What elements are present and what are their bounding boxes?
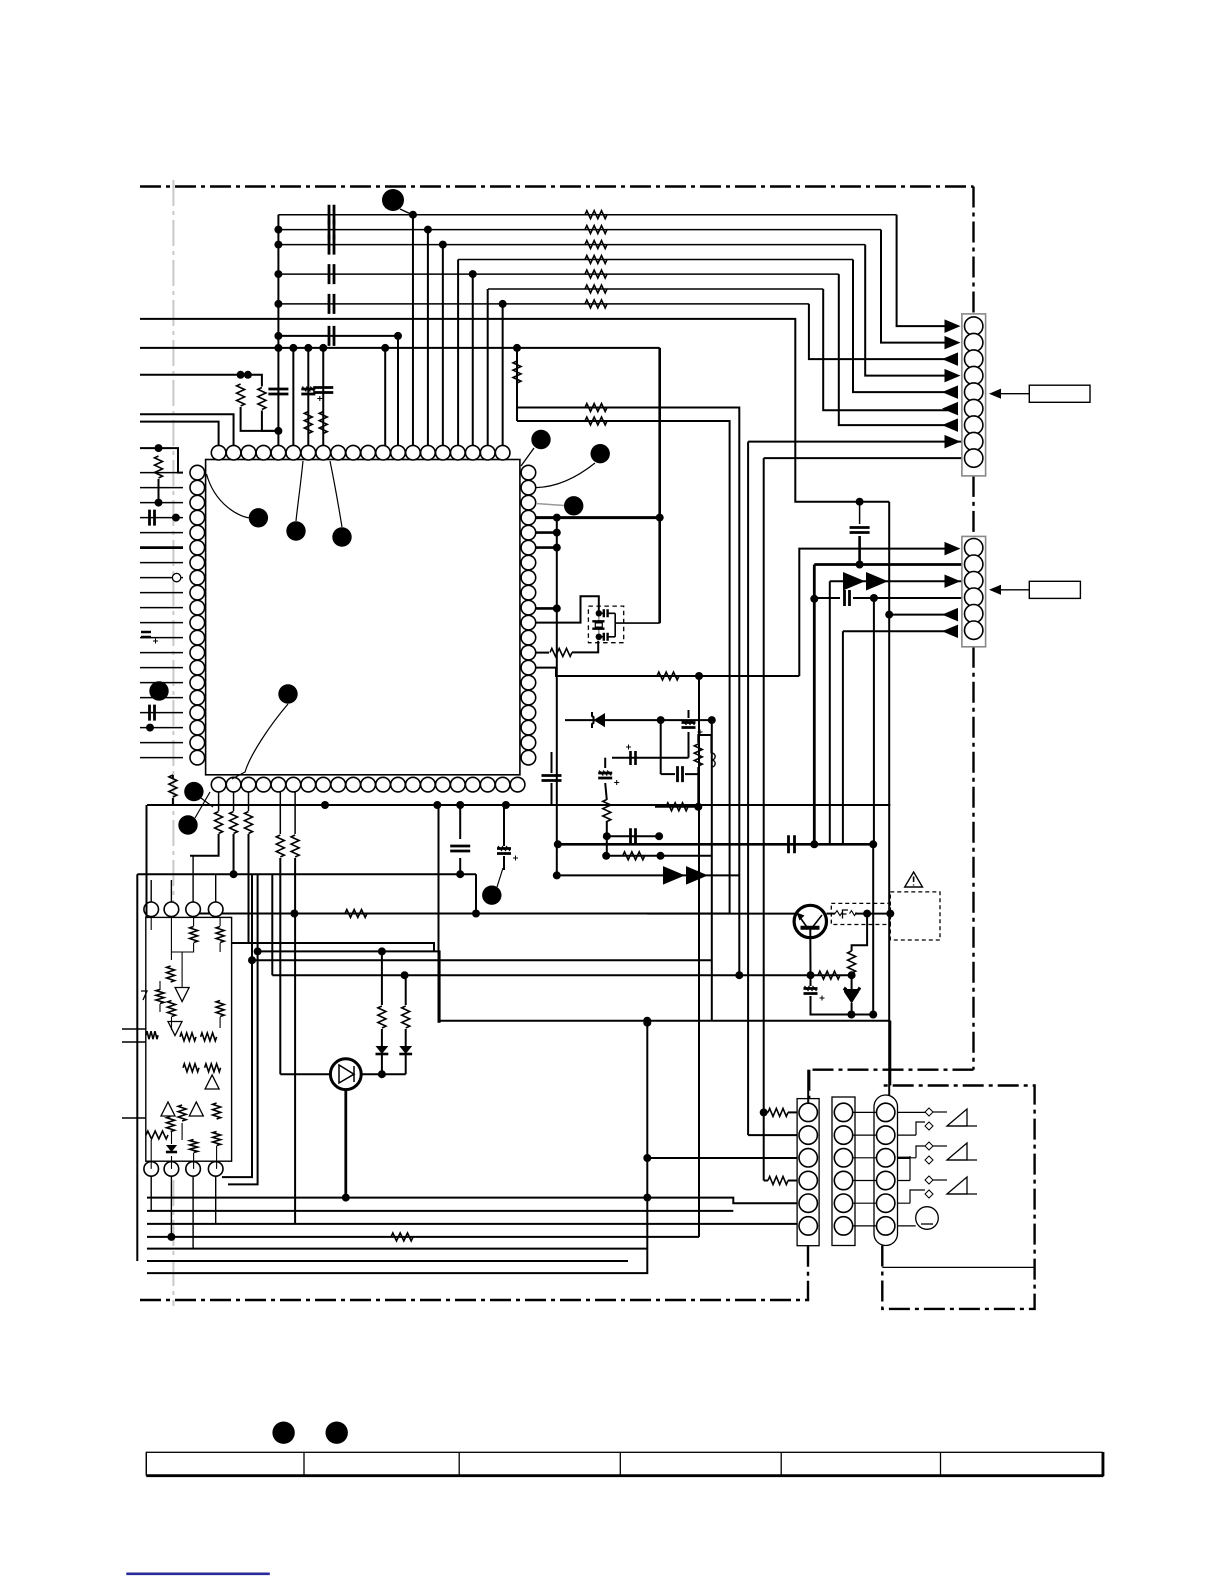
junction — [439, 241, 447, 249]
wire U2 pin feeds — [151, 856, 216, 902]
wire rail y1210 — [147, 1210, 733, 1212]
resistor R below C3 — [319, 412, 327, 434]
junction — [304, 344, 312, 352]
callout dot pin name — [249, 508, 268, 527]
U2 internal wires — [151, 917, 220, 1169]
wire riser x890 low — [889, 1021, 891, 1086]
resistor R32 — [180, 1033, 196, 1041]
arrowhead at CN2 pin6 — [942, 625, 958, 638]
wire left net y375 — [140, 374, 248, 376]
wire drop x699 — [698, 676, 700, 1237]
resistor R18 — [169, 775, 177, 797]
wire left net to top pin2 — [140, 414, 234, 445]
capacitor C3 — [313, 388, 333, 393]
junction — [695, 672, 703, 680]
junction — [274, 344, 282, 352]
wire — [503, 805, 505, 846]
wire jog riser 2 — [228, 874, 258, 1184]
wire — [605, 783, 607, 800]
wire — [698, 735, 711, 753]
capacitor C18 electrolytic — [804, 989, 818, 994]
callout dot — [286, 521, 305, 540]
junction — [596, 610, 602, 616]
wire CN2 pin2 thick — [814, 563, 962, 566]
wire riser to CN2 pin1 — [799, 549, 948, 676]
junction — [502, 801, 510, 809]
wire net y875 — [557, 874, 740, 876]
wire — [810, 996, 812, 1015]
callout leader — [296, 461, 303, 521]
no-connect circle — [172, 573, 180, 581]
footer blue rule — [126, 1573, 269, 1576]
junction — [810, 840, 818, 848]
wire CN2 pin6 net — [843, 630, 948, 632]
junction — [596, 634, 602, 640]
callout dot — [564, 496, 583, 515]
wire cap bank bus — [277, 215, 279, 446]
buffer A5 — [189, 1102, 203, 1116]
callout leader — [207, 474, 250, 518]
callout dot — [184, 782, 203, 801]
resistor R9 — [694, 744, 702, 766]
callout leader — [330, 461, 342, 527]
resistor R31 — [168, 1001, 176, 1017]
label box CN1 — [1029, 385, 1090, 402]
wire bus drop to IC pin — [412, 215, 414, 446]
wire net y407 to riser — [517, 408, 739, 976]
arrowhead at CN2 pin5 — [942, 608, 958, 621]
wire bus drop to IC pin — [427, 230, 429, 446]
wire bus drop to IC pin — [457, 260, 459, 446]
resistor R16 — [848, 951, 856, 973]
junction — [810, 595, 818, 603]
junction — [694, 803, 702, 811]
wire pin10 thick stub — [536, 607, 557, 610]
callout leader — [497, 868, 503, 887]
junction — [553, 604, 561, 612]
resistor R41 — [146, 1131, 168, 1139]
wire — [459, 805, 461, 839]
capacitor on bus line 3 — [329, 235, 334, 255]
capacitor C top — [329, 326, 334, 346]
inductor L1 — [711, 753, 715, 767]
junction — [230, 870, 238, 878]
wire CN3 top entry — [807, 1070, 809, 1104]
callout leader — [400, 209, 414, 216]
wire — [503, 856, 505, 870]
capacitor C2 electrolytic — [301, 389, 315, 394]
arrowhead into CN2 pin1 — [945, 542, 961, 555]
wire rail y1237 — [147, 1236, 699, 1238]
wire — [551, 783, 553, 805]
wire — [280, 792, 295, 834]
footer dot 2 — [326, 1422, 348, 1444]
crystal X1 — [598, 613, 600, 637]
crystal box — [588, 606, 623, 643]
wire — [405, 1054, 407, 1074]
wire bus line 5 — [278, 273, 838, 275]
IC U1 right pins — [521, 465, 536, 480]
wire thick jack — [898, 1157, 911, 1159]
jack J3 — [925, 1176, 933, 1184]
schematic boundary top — [140, 185, 974, 187]
resistor R19 — [215, 812, 223, 834]
callout dot — [591, 444, 610, 463]
wire corner to connector CN1 — [839, 274, 948, 425]
diode D5 — [166, 1145, 177, 1152]
resistor R15 — [513, 361, 521, 383]
buffer A4 — [161, 1102, 175, 1116]
junction — [735, 971, 743, 979]
wire pin drops — [219, 792, 249, 811]
wire — [788, 1111, 797, 1113]
wire R6 bottom — [158, 479, 160, 503]
resistor R14 — [585, 417, 607, 425]
wire — [381, 951, 383, 1005]
junction — [378, 947, 386, 955]
junction — [244, 371, 252, 379]
wire bus line 4 — [458, 259, 853, 261]
wire CN1 pin8 line — [748, 441, 962, 443]
capacitor C10 electrolytic — [682, 723, 696, 728]
arrowhead into CN1 — [945, 369, 961, 382]
wire crystal out — [615, 622, 660, 624]
callout dot — [278, 684, 297, 703]
callout dot — [482, 886, 501, 905]
resistor R46 — [768, 1177, 788, 1185]
wire zener net — [565, 719, 712, 721]
buffer A1 — [175, 988, 189, 1002]
capacitor C13 — [678, 766, 683, 782]
wire jack feeds — [898, 1112, 926, 1226]
junction — [760, 1108, 768, 1116]
wire riser x438 — [438, 805, 440, 1023]
connector CN4 body — [832, 1097, 855, 1246]
resistor R8 — [657, 672, 679, 680]
IC U1 left pins — [190, 465, 205, 480]
IC U2 top pins — [144, 902, 159, 917]
junction — [381, 344, 389, 352]
wire column pin6 — [307, 348, 309, 446]
resistor on bus line 2 — [585, 226, 607, 234]
junction — [553, 514, 561, 522]
wire left net to top pin1 — [140, 422, 219, 446]
resistor R38 — [178, 1105, 186, 1121]
junction — [172, 514, 180, 522]
wire net y421 to riser — [517, 421, 730, 914]
junction — [155, 444, 163, 452]
resistor R24 — [345, 910, 367, 918]
connector CN1 body — [962, 314, 986, 476]
fuse box dashed — [831, 903, 890, 924]
wire cap to pin2 line — [859, 502, 861, 524]
resistor R29 — [167, 966, 175, 982]
junction — [424, 226, 432, 234]
callout leader — [195, 792, 210, 818]
connector CN2 body — [962, 536, 986, 646]
wire — [851, 1003, 853, 1015]
junction — [554, 840, 562, 848]
junction — [856, 498, 864, 506]
lamp LP1 — [916, 1207, 939, 1230]
schematic boundary corner — [808, 1070, 974, 1300]
resistor R26 — [402, 1006, 410, 1028]
arrowhead into CN1 — [945, 435, 961, 448]
wire net y913 — [190, 913, 730, 915]
IC U2 bottom pins — [144, 1162, 159, 1177]
junction — [657, 716, 665, 724]
capacitor C6 electrolytic — [141, 632, 151, 637]
capacitor C11 electrolytic — [631, 751, 636, 765]
resistor R13 — [585, 404, 607, 412]
wire — [381, 1054, 383, 1074]
wire left net y448 — [140, 448, 183, 473]
wire — [851, 973, 853, 990]
junction — [378, 1070, 386, 1078]
wire R4 bottom — [241, 407, 279, 431]
junction — [146, 724, 154, 732]
IC U1 top pins — [211, 445, 226, 460]
wire corner to connector CN1 — [809, 304, 948, 359]
callout dot — [149, 681, 168, 700]
junction — [602, 852, 610, 860]
wire vertical x889 — [888, 502, 890, 1095]
junction — [319, 344, 327, 352]
diode D3 — [376, 1046, 389, 1054]
capacitor C9 — [604, 633, 608, 641]
callout dot — [178, 815, 197, 834]
wire — [788, 1180, 797, 1182]
resistor R42 — [190, 1140, 198, 1153]
wire bus line 3 — [278, 244, 865, 246]
junction — [469, 270, 477, 278]
wire net y960 — [252, 959, 712, 961]
wire bus drop to IC pin — [472, 274, 474, 446]
buffer A2 — [168, 1022, 182, 1036]
wire rail y1261 — [147, 1260, 628, 1262]
wire R5 top — [248, 375, 262, 387]
wire — [606, 821, 608, 856]
resistor R28 — [216, 927, 224, 943]
junction — [456, 870, 464, 878]
capacitor C14 — [631, 828, 636, 844]
wire thick riser x814 — [813, 565, 816, 845]
wire CN1 pin9 line — [764, 457, 962, 459]
wire net y951 — [258, 951, 440, 1022]
resistor R11 — [603, 800, 611, 822]
resistor on bus line 3 — [585, 241, 607, 249]
wire net y1020 — [440, 1020, 891, 1022]
wire — [688, 732, 690, 758]
wire collector down — [852, 914, 868, 951]
junction — [643, 1017, 651, 1025]
capacitor C19 — [450, 846, 470, 851]
wire — [688, 710, 690, 718]
wire net y974 — [272, 974, 851, 976]
resistor R17 — [818, 971, 840, 979]
wire — [551, 752, 553, 773]
wire drop pin11 — [384, 348, 386, 446]
junction — [433, 801, 441, 809]
junction — [254, 947, 262, 955]
wire riser x842.9 — [842, 631, 844, 844]
connector CN5 pins — [877, 1103, 895, 1121]
resistor on bus line 1 — [585, 211, 607, 219]
junction — [289, 344, 297, 352]
resistor R20 — [230, 812, 238, 834]
junction — [643, 1154, 651, 1162]
capacitor C20 electrolytic — [497, 849, 511, 854]
signal arrows — [843, 572, 865, 590]
junction — [274, 332, 282, 340]
wire — [697, 774, 699, 807]
zener diode D2 — [844, 988, 860, 991]
arrowhead at CN1 — [942, 418, 958, 431]
junction — [401, 971, 409, 979]
wire CN2 pin4 net — [816, 597, 840, 599]
resistor R5 — [258, 388, 266, 410]
junction — [869, 840, 877, 848]
buffer A3 — [205, 1075, 219, 1089]
resistor R22 — [276, 835, 284, 857]
wire — [405, 1029, 407, 1046]
junction — [274, 241, 282, 249]
wire vertical x556.8 — [556, 518, 558, 876]
junction — [237, 371, 245, 379]
signal arrows — [663, 866, 685, 884]
resistor on bus line 6 — [585, 285, 607, 293]
junction — [848, 971, 856, 979]
wire — [604, 758, 606, 768]
wire ground rail y805 — [147, 804, 890, 806]
junction — [863, 910, 871, 918]
wire crystal bracket — [614, 613, 616, 637]
wire bus line 7 — [278, 303, 809, 305]
junction — [155, 499, 163, 507]
wire bus line 6 — [488, 288, 823, 290]
page fold line — [172, 180, 174, 1306]
wire U2 left stubs — [122, 1029, 146, 1118]
fuse F1 — [835, 911, 842, 916]
resistor R27 — [190, 927, 198, 943]
resistor R25 — [378, 1006, 386, 1028]
junction — [456, 801, 464, 809]
junction — [513, 344, 521, 352]
callout leader — [536, 504, 564, 506]
diode D4 — [399, 1046, 412, 1054]
wire pin5 stub — [536, 531, 557, 534]
wire — [475, 874, 477, 913]
schematic boundary bottom — [140, 1299, 809, 1301]
wire corner to connector CN1 — [881, 230, 948, 343]
capacitor C5 — [150, 510, 155, 526]
wire pin6 stub — [536, 546, 557, 549]
wire CN3 pin2 entry — [748, 1134, 797, 1136]
junction — [643, 1019, 651, 1027]
schematic boundary right — [972, 187, 974, 1070]
wire Q2 emitter thick — [344, 1090, 347, 1198]
jack J1 — [925, 1108, 933, 1116]
callout leader — [201, 798, 213, 807]
connector CN1 pins — [965, 317, 983, 335]
resistor R30 — [156, 990, 164, 1004]
label 7 — [141, 991, 147, 1000]
warning dashed box — [890, 892, 940, 940]
wire column pin7 — [322, 348, 324, 446]
junction — [885, 611, 893, 619]
junction — [274, 270, 282, 278]
capacitor on bus line 7 — [329, 294, 334, 314]
wire CN2 pin3 net — [830, 580, 962, 582]
wire Q2 base — [280, 1073, 330, 1075]
wire R7 to crystal — [572, 641, 598, 653]
resistor R45 — [768, 1108, 788, 1116]
capacitor C15 — [789, 835, 795, 853]
junction — [274, 226, 282, 234]
wire corner to connector CN1 — [897, 215, 948, 326]
junction — [321, 801, 329, 809]
wire — [661, 773, 675, 775]
resistor R44 — [391, 1233, 413, 1241]
capacitor C21 — [542, 776, 562, 781]
junction — [886, 910, 894, 918]
wire thick vertical — [658, 348, 661, 623]
wire emitter down — [809, 928, 811, 975]
junction — [643, 1194, 651, 1202]
wire rail y1248 — [147, 1248, 647, 1250]
wire base riser — [279, 858, 281, 1074]
IC U2 body — [146, 917, 232, 1161]
junction — [290, 910, 298, 918]
callout leader — [521, 448, 534, 466]
junction — [657, 852, 665, 860]
arrowhead at CN1 — [942, 402, 958, 415]
junction — [499, 300, 507, 308]
wire riser x873.9 — [873, 598, 875, 844]
wire thick net y844 — [558, 843, 873, 846]
wire rail y1224 — [147, 1223, 797, 1225]
resistor R35 — [146, 1031, 158, 1039]
capacitor C12 electrolytic — [598, 773, 612, 778]
wire pin15 stub — [536, 652, 550, 654]
arrowhead at CN1 — [942, 352, 958, 365]
photo transistor Q2 — [330, 1059, 361, 1090]
wire bus line 2 — [278, 229, 881, 231]
label box CN2 — [1029, 581, 1080, 598]
junction — [248, 956, 256, 964]
connector CN2 pins — [965, 539, 983, 557]
resistor R43 — [213, 1132, 221, 1146]
wire bus line 1 — [278, 214, 896, 216]
wire — [764, 1111, 768, 1113]
zener diode D1 — [594, 713, 606, 727]
connector CN3 pins — [799, 1103, 817, 1121]
junction — [167, 1233, 175, 1241]
wire — [405, 975, 407, 1005]
resistor R below C2 — [304, 412, 312, 434]
resistor R37 — [205, 1064, 221, 1072]
junction — [472, 910, 480, 918]
resistor R12 — [623, 852, 645, 860]
junction — [856, 561, 864, 569]
capacitor C7 — [150, 705, 155, 721]
wire riser x295 — [294, 858, 296, 1224]
wire riser x517 — [516, 348, 518, 421]
capacitor C8 — [604, 609, 608, 617]
callout dot — [531, 430, 550, 449]
wire net y1014 — [811, 996, 874, 1015]
wire left pin stubs — [140, 473, 183, 758]
